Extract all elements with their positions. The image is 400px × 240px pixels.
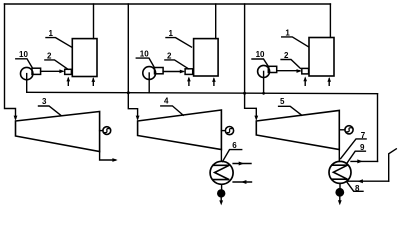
air arrow under boiler 1 (unit 3) (328, 79, 330, 85)
arrow at turbine 3 exhaust (112, 158, 117, 162)
wire: fan 10 drop (unit 3) (263, 71, 265, 93)
label 4 (161, 97, 184, 116)
wire: fan 10 discharge to box 2 (unit 2) (163, 71, 183, 73)
heater 9 circle (329, 161, 351, 183)
wire: boiler 1 riser (unit 3) (329, 4, 331, 37)
air arrow under box 2 (unit 3) (304, 78, 306, 85)
generator tilde (unit 1) (105, 129, 109, 133)
wire: fan suction header (27, 92, 378, 93)
label 1 (unit 1) (46, 29, 72, 47)
boiler rect 1 (unit 3) (309, 38, 334, 77)
fan 10 outlet box (unit 1) (32, 68, 41, 74)
turbine 4 (138, 110, 222, 150)
junction dot at fan3 drop (262, 92, 265, 95)
generator tilde (unit 2) (227, 129, 231, 133)
wire: turbine 5 admission drop (245, 4, 257, 119)
wire: turbine 4 exhaust into heater 6 (220, 150, 222, 162)
label 6 (223, 141, 242, 162)
label 8 (347, 182, 363, 193)
wire: water supply riser with barb (389, 149, 397, 181)
label 10 (unit 2) (136, 50, 154, 67)
svg-text:10: 10 (256, 50, 265, 59)
wire: heater 6 water outlet stub (233, 163, 251, 165)
label 5 (279, 97, 302, 115)
wire: heater 6 condensate drop (221, 184, 223, 189)
arrow into turbine 5 (254, 116, 258, 121)
arrow into turbine 3 (14, 116, 18, 121)
wire: turbine 4 admission drop (128, 4, 137, 119)
wire: fan 10 drop (unit 2) (148, 73, 150, 93)
top steam header (5, 3, 331, 5)
pump (filled) under heater 9 (335, 188, 344, 197)
svg-text:3: 3 (42, 97, 47, 106)
arrow into box 2 (unit 1) (59, 69, 64, 73)
wire: heater 9 condensate drop (339, 183, 341, 188)
combustor box 2 (unit 1) (65, 69, 72, 74)
wire: turbine 3 admission drop (5, 4, 16, 119)
arrow into turbine 4 (136, 116, 140, 121)
label 2 (unit 1) (45, 51, 68, 69)
svg-text:5: 5 (280, 97, 285, 106)
label 2 (unit 2) (165, 51, 189, 69)
fan 10 circle (unit 3) (258, 65, 270, 77)
wire: generator connector (unit 1) (100, 130, 103, 132)
label 9 (347, 143, 365, 162)
svg-text:2: 2 (167, 51, 172, 60)
air arrow under box 2 (unit 1) (67, 79, 69, 86)
arrow into box 2 (unit 3) (297, 69, 302, 73)
wire: generator connector (unit 3) (339, 129, 345, 131)
wire: boiler 1 riser (unit 1) (93, 4, 95, 39)
generator circle (unit 3) (345, 126, 353, 134)
wire: fan 10 drop (unit 1) (26, 74, 28, 93)
generator circle (unit 2) (225, 127, 233, 135)
wire: header right riser down to heater 9 outlet (377, 94, 379, 162)
svg-text:1: 1 (285, 28, 290, 37)
arrow left on heater 9 inlet (357, 179, 363, 183)
arrow into box 2 (unit 2) (180, 70, 185, 74)
label 10 (unit 3) (252, 50, 269, 67)
heater 6 coil zigzag (213, 165, 229, 179)
turbine 5 (256, 110, 339, 149)
svg-text:10: 10 (19, 50, 28, 59)
air arrow under boiler 1 (unit 2) (213, 79, 215, 85)
turbine 3 (16, 112, 100, 152)
wire: boiler 1 riser (unit 2) (215, 4, 217, 39)
junction dot at turbine5 drop crossing (243, 92, 246, 95)
wire: turbine 5 exhaust into heater 9 (338, 150, 340, 162)
svg-text:2: 2 (284, 51, 289, 60)
label 1 (unit 2) (166, 29, 192, 47)
arrow right on heater 6 outlet (239, 162, 245, 166)
label 3 (39, 97, 61, 115)
fan 10 circle (unit 2) (143, 67, 156, 80)
generator circle (unit 1) (103, 127, 111, 135)
svg-text:6: 6 (232, 141, 237, 150)
condensate arrow down (unit 3) (339, 197, 341, 203)
wire: heater 9 water outlet stub to riser (351, 160, 378, 162)
air arrow under boiler 1 (unit 1) (92, 79, 94, 85)
label 7 (341, 131, 367, 159)
fan 10 outlet box (unit 2) (155, 68, 164, 74)
arrow left on heater 6 inlet (241, 180, 247, 184)
wire: turbine 3 exhaust (100, 152, 116, 161)
pump (filled) under heater 6 (217, 189, 225, 197)
wire: generator connector (unit 2) (221, 130, 225, 132)
svg-text:4: 4 (164, 97, 169, 106)
generator tilde (unit 3) (347, 128, 351, 132)
fan 10 circle (unit 1) (21, 67, 33, 79)
boiler rect 1 (unit 1) (72, 39, 97, 77)
svg-text:10: 10 (140, 50, 149, 59)
svg-text:1: 1 (169, 29, 174, 38)
heater 6 circle (210, 161, 233, 184)
boiler rect 1 (unit 2) (194, 39, 219, 76)
arrow right on heater 9 outlet (357, 159, 363, 163)
wire: fan 10 discharge to box 2 (unit 3) (277, 70, 300, 72)
fan 10 outlet box (unit 3) (268, 66, 276, 72)
svg-text:2: 2 (47, 51, 52, 60)
junction dot at turbine4 drop crossing (127, 91, 130, 94)
label 10 (unit 1) (16, 50, 32, 68)
combustor box 2 (unit 2) (185, 69, 193, 75)
air arrow under box 2 (unit 2) (188, 79, 190, 86)
condensate arrow down (unit 2) (220, 198, 222, 203)
wire: heater 6 water inlet stub (233, 181, 251, 183)
label 2 (unit 3) (281, 51, 300, 68)
svg-text:1: 1 (49, 29, 54, 38)
combustor box 2 (unit 3) (302, 68, 309, 74)
heater 9 coil zigzag (332, 165, 348, 179)
wire: fan 10 discharge to box 2 (unit 1) (41, 70, 63, 72)
wire: heater 9 water inlet from right (347, 180, 389, 182)
label 1 (unit 3) (282, 28, 309, 46)
